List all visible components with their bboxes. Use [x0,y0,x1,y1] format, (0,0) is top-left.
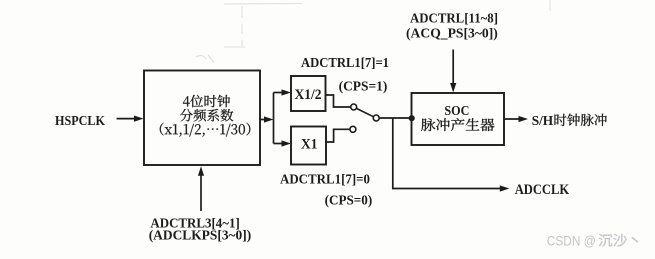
wire HSPCLK input [117,118,136,120]
svg-text:ADCTRL1[7]=1: ADCTRL1[7]=1 [301,56,389,71]
SOC acquisition window arrow [452,50,454,87]
svg-text:(CPS=0): (CPS=0) [325,193,373,208]
divider label （x1,1/2,…1/30） [160,123,251,137]
SOC label 脉冲产生器 [421,118,494,131]
ADCTRL3 select arrow [200,173,202,211]
splitter branch wire [273,93,275,144]
wire X1/2 to upper contact [326,95,351,107]
X1 box [291,127,326,165]
svg-text:X1: X1 [301,137,318,153]
S/H output wire [504,118,521,120]
svg-text:ADCTRL1[7]=0: ADCTRL1[7]=0 [280,172,370,187]
wire to X1/2 [274,92,284,94]
switch pole [373,115,379,121]
svg-text:CSDN @: CSDN @ [547,233,596,249]
SOC pulse generator box [412,93,505,145]
svg-text:ADCTRL[11~8]: ADCTRL[11~8] [410,12,498,27]
svg-text:ADCCLK: ADCCLK [515,182,570,198]
divider box (4-bit clock prescaler) [144,71,260,166]
wire X1 to lower contact [326,129,350,142]
wire to ADCCLK [393,118,502,189]
wire pole to SOC box [379,117,411,119]
svg-text:(ADCLKPS[3~0]): (ADCLKPS[3~0]) [149,229,252,244]
divider label 分频系数 [180,109,233,122]
scan ghost artifacts (decorative, faint) [196,0,550,63]
X1/2 box [291,76,326,111]
wire divider output [260,119,266,121]
junction node [409,115,415,121]
svg-text:SOC: SOC [444,104,469,119]
svg-text:S/H: S/H [532,114,554,129]
lower switch contact [350,126,356,132]
svg-text:HSPCLK: HSPCLK [55,114,105,129]
wire to X1 [274,143,284,145]
upper switch contact [351,104,357,110]
svg-text:(ACQ_PS[3~0]): (ACQ_PS[3~0]) [406,26,498,41]
switch lever (CPS select) [356,108,373,116]
divider label 4位时钟 [183,95,230,107]
svg-text:(CPS=1): (CPS=1) [339,80,388,95]
svg-text:X1/2: X1/2 [295,87,322,103]
